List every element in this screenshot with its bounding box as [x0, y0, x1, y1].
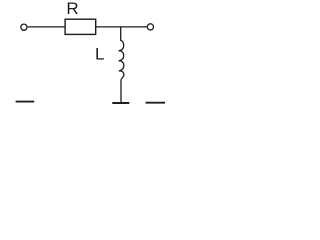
- svg-text:R: R: [66, 0, 78, 18]
- svg-text:L: L: [95, 45, 104, 64]
